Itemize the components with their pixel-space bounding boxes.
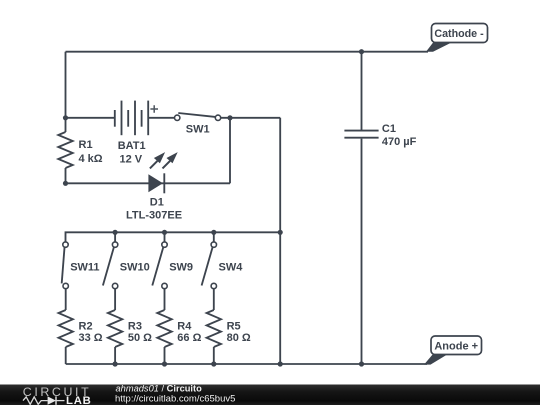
svg-text:SW9: SW9 [169,261,193,273]
node flag Cathode - [426,24,488,52]
node dot top rail SW4 [211,230,216,235]
switch SW11 (closed) [62,242,69,310]
capacitor C1 branch wire lower [361,139,363,364]
svg-text:470 µF: 470 µF [382,136,417,148]
node dot top rail right vertical [278,230,283,235]
wire right vertical (SW1 node to bottom rail) [279,118,281,364]
svg-text:D1: D1 [150,197,164,209]
svg-text:SW4: SW4 [219,261,244,273]
resistor R4 [157,310,171,364]
wire battery row [66,117,115,119]
svg-text:LAB: LAB [66,395,92,405]
wire left vertical from top rail to R1 [65,52,67,132]
node dot bottom rail right vertical [278,361,283,366]
svg-text:66 Ω: 66 Ω [177,332,201,344]
resistor R3 [108,310,122,364]
svg-text:LTL-307EE: LTL-307EE [126,210,182,222]
node dot bottom rail R5 [211,361,216,366]
svg-text:Anode +: Anode + [434,341,478,353]
svg-text:SW11: SW11 [70,261,99,273]
LED D1 [148,152,177,193]
svg-text:R1: R1 [79,139,93,151]
wire LED row [66,182,231,184]
svg-text:R4: R4 [177,320,192,332]
resistor R1 [58,132,72,183]
node dot SW1 / LED branch [227,115,232,120]
svg-text:http://circuitlab.com/c65buv5: http://circuitlab.com/c65buv5 [115,393,235,404]
node dot bottom rail C1 [359,361,364,366]
svg-text:R5: R5 [227,320,241,332]
capacitor C1 [344,131,378,138]
switch SW1 (closed) [175,113,221,121]
node flag Anode + [424,336,482,365]
node dot R1 / battery [63,115,68,120]
svg-text:Cathode -: Cathode - [434,28,484,40]
logo diode [48,396,56,404]
switch SW10 (open) [103,232,118,310]
wire switch-bank top rail [66,232,281,242]
svg-text:R3: R3 [128,320,142,332]
svg-text:SW1: SW1 [186,124,210,136]
switch SW9 (open) [152,232,167,310]
svg-text:80 Ω: 80 Ω [227,332,251,344]
svg-text:50 Ω: 50 Ω [128,332,152,344]
wire bottom rail (anode net) [66,363,427,365]
node dot bottom rail R4 [162,361,167,366]
svg-text:R2: R2 [79,320,93,332]
svg-text:C1: C1 [382,123,396,135]
svg-text:12 V: 12 V [120,153,143,165]
battery BAT1 [115,101,148,136]
node dot R1 / LED row [63,181,68,186]
svg-text:SW10: SW10 [120,261,150,273]
label battery plus sign [150,105,158,113]
resistor R2 [59,310,73,364]
wire top rail (cathode net) [66,51,429,53]
svg-text:4 kΩ: 4 kΩ [79,153,103,165]
node dot bottom rail R3 [113,361,118,366]
resistor R5 [207,310,221,364]
wire vertical from SW1 node down to LED row [229,118,231,184]
node dot top rail / C1 [359,49,364,54]
svg-text:ahmads01 / Circuito: ahmads01 / Circuito [116,384,203,394]
switch SW4 (open) [202,232,217,310]
capacitor C1 branch wire upper [361,52,363,130]
svg-text:BAT1: BAT1 [118,140,146,152]
footer bar [0,384,540,405]
node dot top rail SW10 [113,230,118,235]
wire battery to SW1 [148,117,174,119]
logo resistor zigzag [23,397,48,404]
svg-text:33 Ω: 33 Ω [79,332,103,344]
node dot top rail SW9 [162,230,167,235]
wire SW1 to right vertical [221,117,281,119]
